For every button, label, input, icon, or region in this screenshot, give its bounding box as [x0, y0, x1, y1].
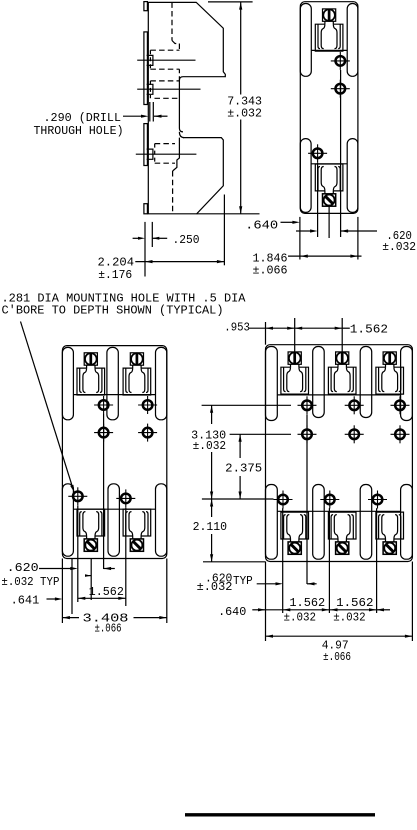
ext line hole row 2 — [230, 433, 291, 435]
side view: hidden dashed vertical between holes — [178, 69, 180, 81]
svg-text:±.032: ±.032 — [382, 241, 416, 254]
1-pole bottom terminal: neck — [324, 191, 326, 194]
2-pole pole 1 top terminal: clamp inner walls — [80, 368, 82, 392]
3-pole pole 1 top terminal: screw head square — [288, 352, 301, 364]
3-pole pole 3 bottom terminal: screw head circle (hatched) — [384, 543, 395, 554]
2-pole pole 1 top terminal: screw head circle — [85, 353, 97, 365]
3-pole: top-middle slot 1 — [313, 347, 325, 418]
small arrow at pole centerline — [85, 575, 91, 577]
2-pole: top shelf line — [73, 394, 155, 396]
dim 1.562 (bottom right): dimension line and arrows — [330, 609, 377, 611]
2-pole: pole 1 centerline extension below — [90, 559, 92, 601]
3-pole pole 3 bottom terminal: clamp inner walls — [379, 515, 381, 539]
3-pole pole 3 bottom terminal: neck — [385, 539, 387, 542]
2-pole pole 1 bottom terminal: screw head square — [84, 539, 97, 551]
1-pole bottom terminal: screw slot diagonal — [326, 196, 333, 203]
side view: hidden hole rect B (dashed) — [150, 80, 179, 82]
1-pole: top shelf line — [311, 49, 347, 51]
3-pole: top-middle slot 2 — [360, 347, 372, 418]
3-pole pole 2 bottom terminal: wire funnel — [334, 515, 338, 539]
1-pole top terminal: clamp inner walls — [318, 24, 320, 48]
2-pole: upper mounting hole row 1 right — [138, 396, 157, 414]
svg-text:1.562: 1.562 — [336, 597, 373, 610]
svg-text:1.562: 1.562 — [289, 597, 325, 610]
dim .620 TYP: left edge ext line — [61, 559, 63, 624]
1-pole bottom terminal: screw head square — [323, 194, 336, 206]
side view: mounting plate strip bottom segment — [144, 204, 148, 214]
1-pole: bottom-left corner slot — [300, 139, 311, 213]
side view: upper terminal step boss A — [147, 55, 153, 65]
3-pole pole 3 top terminal: wire funnel — [382, 367, 386, 391]
3-pole pole 1 bottom terminal: wire funnel — [287, 515, 291, 539]
3-pole pole 2 top terminal: wire clamp box — [328, 367, 356, 394]
2-pole pole 1 top terminal: wire clamp box — [77, 368, 105, 395]
1-pole: lower hole centerline extended — [317, 163, 319, 238]
dim 2.375: dimension line — [239, 434, 241, 458]
svg-text:±.032: ±.032 — [333, 611, 366, 624]
1-pole: top-left corner slot — [300, 4, 311, 77]
3-pole pole 2 bottom terminal: wire clamp box — [328, 512, 356, 539]
3-pole front view: body outline — [266, 345, 413, 562]
1-pole bottom terminal: wire clamp box — [315, 164, 343, 191]
side view: notch bottom-left fillet — [179, 132, 184, 138]
svg-text:C'BORE TO DEPTH SHOWN (TYPICAL: C'BORE TO DEPTH SHOWN (TYPICAL) — [2, 305, 224, 318]
3-pole pole 3 top terminal: clamp inner walls — [379, 367, 381, 391]
dim 1.846 +-.066: extension right — [357, 217, 359, 260]
side view: lower terminal step boss C — [147, 149, 153, 159]
1-pole: upper mounting hole 2 — [331, 80, 350, 98]
3-pole: bottom shelf line — [277, 510, 400, 512]
2-pole pole 1 bottom terminal: screw slot diagonal — [87, 542, 94, 549]
side view: mounting plate strip upper-middle segment — [144, 32, 148, 105]
3-pole pole 3 top terminal: screw slot — [388, 352, 391, 363]
2-pole pole 1 top terminal: screw head square — [84, 353, 97, 365]
dim 2.204: dimension line — [135, 261, 224, 263]
3-pole pole 1 top terminal: screw slot — [293, 352, 296, 363]
2-pole: clamp edge extension — [71, 559, 73, 615]
3-pole pole 2 bottom terminal: screw head circle (hatched) — [337, 543, 348, 554]
svg-text:.641: .641 — [11, 594, 40, 607]
2-pole pole 2 top terminal: neck — [132, 365, 134, 368]
2-pole: bottom-right corner slot — [156, 484, 167, 556]
2-pole pole 2 top terminal: wire funnel — [129, 368, 133, 392]
3-pole pole 3 top terminal: wire clamp box — [376, 367, 404, 394]
svg-text:±.176: ±.176 — [98, 269, 132, 282]
3-pole pole 1 bottom terminal: wire clamp box — [281, 512, 309, 539]
side view: upper terminal plate edge line 2 — [137, 88, 200, 90]
3-pole: lower hole centerlines extended down — [282, 508, 284, 613]
3-pole pole 2 bottom terminal: clamp inner walls — [331, 515, 333, 539]
side view: upper terminal plate edge line 1 — [137, 59, 195, 61]
2-pole pole 1 bottom terminal: wire clamp box — [77, 509, 105, 536]
side view: hidden dashed vertical (bottom) — [172, 171, 174, 213]
chain tail right of last tick — [377, 609, 391, 611]
3-pole pole 3 top terminal: screw head square — [383, 352, 396, 364]
dim .953 dimension line and arrows — [249, 327, 266, 329]
2-pole pole 2 bottom terminal: screw slot diagonal — [133, 542, 140, 549]
dim 2.204 +-.176: extension line right — [223, 195, 225, 266]
3-pole pole 1 bottom terminal: screw head circle (hatched) — [289, 543, 300, 554]
1-pole: upper hole centerline extended — [340, 70, 342, 237]
3-pole: bottom-middle slot 2 — [360, 485, 372, 560]
dim 3.408: right edge ext line — [166, 559, 168, 624]
3-pole pole 3 top terminal: screw head circle — [384, 352, 396, 364]
3-pole pole 2 top terminal: wire funnel — [334, 367, 338, 391]
2-pole: top-right corner slot — [156, 347, 167, 419]
side view: drill through hole left edge — [149, 102, 151, 122]
dim .250: extension line a — [144, 222, 146, 277]
1-pole top terminal: screw slot — [328, 9, 331, 20]
ext line lower hole row — [202, 498, 274, 500]
3-pole pole 1 top terminal: screw head circle — [289, 352, 301, 364]
2-pole pole 2 bottom terminal: wire clamp box — [123, 509, 151, 536]
dim .620 TYP (3-pole): arrows — [257, 583, 277, 585]
2-pole pole 1 bottom terminal: screw head circle (hatched) — [85, 540, 96, 551]
2-pole: upper hole 1 centerline extended down — [103, 414, 105, 569]
3-pole pole 1 bottom terminal: screw slot diagonal — [291, 545, 298, 552]
dim 7.343 +-.032: extension line top — [208, 1, 253, 3]
3-pole: upper hole 1 centerline extended down — [306, 415, 308, 585]
1-pole bottom terminal: screw head circle (hatched) — [324, 195, 335, 206]
2-pole pole 1 top terminal: neck — [86, 365, 88, 368]
svg-text:.640: .640 — [245, 219, 278, 232]
3-pole pole 3 bottom terminal: wire clamp box — [376, 512, 404, 539]
2-pole pole 2 top terminal: screw slot — [136, 353, 139, 364]
2-pole pole 2 bottom terminal: neck — [132, 536, 134, 539]
ext line view bottom — [203, 561, 266, 563]
svg-text:1.846: 1.846 — [253, 252, 288, 265]
side view: hidden center dashed vertical (top) — [171, 2, 173, 40]
svg-text:.640: .640 — [218, 606, 246, 619]
2-pole pole 1 bottom terminal: neck — [86, 536, 88, 539]
1-pole: bottom shelf line — [311, 163, 347, 165]
bottom border heavy line — [185, 813, 375, 816]
dim .640: left edge extension line — [299, 217, 301, 260]
3-pole pole 2 top terminal: screw head square — [336, 352, 349, 364]
svg-text:2.110: 2.110 — [193, 521, 228, 534]
1-pole: pole centerline below — [328, 205, 330, 238]
dim 1.846: dimension line — [288, 255, 362, 257]
dim 3.130 +-.032: dimension line — [211, 405, 213, 424]
3-pole pole 2 bottom terminal: neck — [337, 539, 339, 542]
3-pole pole 3 bottom terminal: screw slot diagonal — [386, 545, 393, 552]
3-pole pole 1 top terminal: wire clamp box — [281, 367, 309, 394]
3-pole pole 2 top terminal: clamp inner walls — [331, 367, 333, 391]
3-pole pole 3 bottom terminal: screw head square — [383, 542, 396, 554]
3-pole: top-left corner slot — [266, 347, 278, 421]
2-pole pole 2 bottom terminal: screw head circle (hatched) — [131, 540, 142, 551]
2-pole: bottom shelf line — [73, 508, 155, 510]
svg-text:.281 DIA MOUNTING HOLE WITH .5: .281 DIA MOUNTING HOLE WITH .5 DIA — [2, 292, 246, 305]
3-pole pole 1 top terminal: neck — [290, 364, 292, 367]
3-pole: bottom-middle slot 1 — [313, 485, 325, 560]
side view: breaker body outline — [148, 2, 225, 213]
svg-text:±.066: ±.066 — [323, 651, 351, 664]
ext line hole row 1 — [202, 404, 291, 406]
2-pole: upper mounting hole row 1 left — [94, 396, 113, 414]
3-pole pole 2 top terminal: screw head circle — [336, 352, 348, 364]
2-pole pole 2 bottom terminal: screw head square — [130, 539, 143, 551]
3-pole pole 2 bottom terminal: screw head square — [336, 542, 349, 554]
svg-text:±.032 TYP: ±.032 TYP — [1, 576, 59, 589]
3-pole: top-right corner slot — [401, 347, 413, 421]
1-pole: bottom-right corner slot — [347, 139, 358, 213]
svg-text:2.204: 2.204 — [98, 257, 135, 270]
3-pole pole 1 bottom terminal: neck — [290, 539, 292, 542]
side view: drill through hole right edge — [152, 102, 154, 122]
dim .620 +-.032: arrows — [296, 230, 311, 232]
3-pole pole 2 top terminal: screw slot — [341, 352, 344, 363]
side view: lower terminal plate edge line — [136, 153, 197, 155]
svg-text:.953: .953 — [224, 322, 250, 335]
2-pole pole 2 top terminal: screw head circle — [131, 353, 143, 365]
3-pole: bottom-left corner slot — [266, 485, 278, 560]
2-pole pole 2 top terminal: clamp inner walls — [126, 368, 128, 392]
side view: hidden hole rect C (dashed) — [155, 143, 175, 145]
svg-text:2.375: 2.375 — [225, 462, 262, 475]
1-pole: lower mounting hole — [308, 144, 327, 162]
3-pole pole 1 top terminal: wire funnel — [287, 367, 291, 391]
2-pole: upper mounting hole row 2 right — [138, 424, 157, 442]
1-pole top terminal: wire funnel — [321, 24, 325, 48]
callout leader line — [21, 322, 73, 487]
dim 1.562 (top): dimension line and arrows — [295, 327, 343, 329]
3-pole pole 2 top terminal: neck — [337, 364, 339, 367]
dim .290: leader line and arrows — [123, 115, 142, 117]
2-pole pole 1 top terminal: wire funnel — [83, 368, 87, 392]
3-pole pole 1 bottom terminal: clamp inner walls — [284, 515, 286, 539]
svg-text:±.032: ±.032 — [284, 611, 317, 624]
1-pole top terminal: neck — [324, 21, 326, 24]
dim 7.343 +-.032: extension line bottom — [197, 213, 260, 215]
1-pole: upper mounting hole 1 — [331, 52, 350, 70]
dim 1.562 (bottom left): dimension line and arrows — [266, 609, 330, 611]
svg-text:±.032: ±.032 — [193, 440, 227, 453]
2-pole: lower hole centerlines extended down — [77, 506, 79, 603]
2-pole: top-middle slot — [107, 347, 118, 419]
2-pole pole 2 top terminal: screw head square — [130, 353, 143, 365]
svg-text:±.032: ±.032 — [227, 107, 262, 120]
3-pole pole 1 top terminal: clamp inner walls — [284, 367, 286, 391]
2-pole: upper mounting hole row 2 left — [94, 424, 113, 442]
2-pole pole 2 bottom terminal: wire funnel — [129, 512, 133, 536]
2-pole: bottom-left corner slot — [62, 484, 73, 556]
dim .953: ext lines up from view — [265, 322, 267, 345]
svg-text:±.066: ±.066 — [253, 264, 288, 277]
svg-text:THROUGH HOLE): THROUGH HOLE) — [34, 125, 124, 138]
2-pole pole 2 bottom terminal: clamp inner walls — [126, 512, 128, 536]
svg-text:1.562: 1.562 — [350, 324, 388, 337]
svg-text:.290 (DRILL: .290 (DRILL — [44, 112, 122, 125]
2-pole front view: body outline — [62, 346, 166, 559]
side view: hidden hole rect A (dashed) — [150, 49, 179, 51]
2-pole: bottom-middle slot — [108, 484, 119, 556]
3-pole pole 3 top terminal: neck — [385, 364, 387, 367]
3-pole: upper mounting holes row 2 — [298, 425, 317, 443]
dim .250: arrows and text — [133, 237, 141, 239]
1-pole: top-right corner slot — [347, 4, 358, 77]
svg-text:±.032: ±.032 — [197, 581, 233, 594]
1-pole top terminal: screw head square — [323, 9, 336, 21]
dim 4.97 +-.066: dimension line — [266, 635, 413, 637]
3-pole pole 1 bottom terminal: screw head square — [288, 542, 301, 554]
2-pole: top-left corner slot — [62, 347, 73, 419]
svg-text:.250: .250 — [173, 234, 200, 247]
side view: upper terminal step boss B — [147, 84, 153, 94]
dim 2.110: dimension line — [211, 499, 213, 517]
2-pole pole 1 bottom terminal: wire funnel — [83, 512, 87, 536]
3-pole: left edge ext line down — [265, 562, 267, 642]
3-pole: right edge ext line down — [411, 562, 413, 642]
2-pole pole 2 top terminal: wire clamp box — [123, 368, 151, 395]
1-pole front view: body outline — [300, 2, 358, 214]
dim .250: extension line b — [151, 222, 153, 247]
side view: mounting plate strip top segment — [144, 2, 148, 11]
2-pole pole 1 bottom terminal: clamp inner walls — [80, 512, 82, 536]
side view: terminal block edge below notch — [173, 138, 180, 171]
3-pole: lower mounting holes — [274, 491, 293, 509]
3-pole pole 2 bottom terminal: screw slot diagonal — [339, 545, 346, 552]
svg-text:±.066: ±.066 — [95, 622, 122, 635]
1-pole top terminal: screw head circle — [323, 9, 335, 21]
2-pole pole 1 top terminal: screw slot — [89, 353, 92, 364]
2-pole: lower mounting hole left (callout target) — [68, 487, 87, 505]
1-pole bottom terminal: clamp inner walls — [318, 167, 320, 191]
dim 3.408 +-.066: dimension line — [62, 617, 79, 619]
dim .620 TYP: arrows — [39, 568, 71, 570]
dim 1.562: dimension line and arrows — [78, 597, 126, 599]
svg-text:TYP: TYP — [233, 575, 253, 588]
2-pole: lower mounting hole right — [116, 489, 135, 507]
3-pole: upper mounting holes row 1 — [298, 396, 317, 414]
3-pole: top shelf line — [277, 394, 400, 396]
3-pole: bottom-right corner slot — [401, 485, 413, 560]
1-pole top terminal: wire clamp box — [315, 24, 343, 51]
3-pole pole 3 bottom terminal: wire funnel — [382, 515, 386, 539]
svg-text:.620: .620 — [7, 562, 39, 575]
dim 7.343 +-.032: dimension line with arrows — [240, 2, 242, 94]
side view: mounting plate strip lower-middle segment — [144, 124, 148, 166]
1-pole bottom terminal: wire funnel — [321, 167, 325, 191]
